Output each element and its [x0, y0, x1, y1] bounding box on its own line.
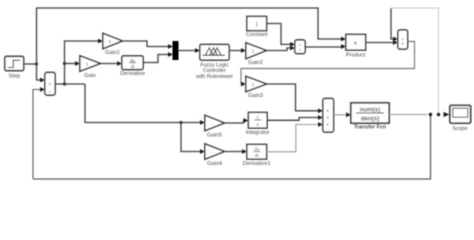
wire arrowhead into Derivative1: [242, 149, 247, 154]
wire junction down to Gain4: [181, 123, 201, 152]
gain Gain5: [205, 116, 224, 139]
wire arrowhead into SumA input 2: [290, 46, 295, 51]
wire Derivative to Mux input 2: [143, 55, 169, 63]
svg-text:1: 1: [86, 62, 89, 67]
wire Gain1 to Mux input 1: [122, 41, 169, 47]
svg-text:+: +: [401, 37, 404, 42]
svg-text:1: 1: [252, 49, 255, 54]
block Transfer Fcn: [351, 103, 389, 131]
svg-text:1: 1: [256, 115, 259, 120]
svg-text:1: 1: [255, 22, 258, 28]
wire step output to junction: [23, 63, 37, 65]
wire bottom feedback line: [33, 115, 431, 180]
op-amp style gain Gain: [80, 56, 100, 79]
wire Gain3 to Mux3 input 1: [266, 84, 319, 111]
wire sum1 output down to lower row: [85, 84, 201, 123]
wire step junction down into Sum1 plus input: [37, 64, 41, 80]
node loop junction dot: [437, 113, 440, 116]
svg-text:Derivative1: Derivative1: [243, 161, 271, 167]
wire Integrator to Mux3 input 2: [267, 118, 319, 121]
block Fuzzy Logic Controller with Ruleviewer U1: [196, 45, 233, 81]
wire branch to Gain: [65, 63, 76, 65]
block Scope: [450, 106, 471, 133]
wire Product to Sum2 input 2: [366, 42, 394, 44]
svg-text:+: +: [299, 48, 302, 53]
block Product: [346, 35, 366, 59]
svg-text:-.: -.: [211, 121, 214, 126]
gain Gain2: [246, 43, 266, 66]
wire arrowhead into Mux3 input 2: [318, 115, 323, 120]
wire arrowhead into Fuzzy Logic Controller: [195, 48, 200, 53]
svg-text:Gain4: Gain4: [207, 161, 222, 167]
svg-text:Step: Step: [9, 74, 21, 80]
wire arrowhead into Gain4: [200, 149, 205, 154]
wire branch up to Gain1: [65, 41, 99, 84]
wire Gain4 to Derivative1: [224, 151, 243, 153]
wire top feedforward from step junction up and across to Product elbow: [37, 8, 343, 64]
block Step: [5, 57, 24, 80]
wire Sum1 output with branch up: [55, 83, 85, 85]
svg-text:num(s): num(s): [360, 106, 381, 113]
svg-text:-.: -.: [211, 150, 214, 155]
wire faint loop from plant output to Sum2: [391, 8, 439, 115]
svg-text:with Ruleviewer: with Ruleviewer: [196, 74, 233, 80]
block Constant: [246, 17, 268, 38]
svg-text:1: 1: [252, 82, 255, 87]
svg-text:du: du: [130, 58, 135, 63]
block Sum2: [398, 30, 408, 49]
wire arrowhead into Gain5: [200, 120, 205, 125]
wire arrowhead into SumA input 1: [290, 42, 295, 47]
wire from scope line up and around into Sum2 input 1: [391, 8, 394, 39]
wire arrowhead into Gain3: [241, 82, 246, 87]
wire Gain5 to Integrator: [224, 121, 244, 124]
svg-text:Gain3: Gain3: [248, 93, 263, 99]
wire arrowhead into Sum1 plus input: [40, 78, 45, 83]
svg-text:Scope: Scope: [452, 126, 467, 132]
wire arrowhead into Mux3 input 3: [318, 122, 323, 127]
wire arrowhead into Sum2 input 1: [393, 37, 398, 42]
node feedback junction dot: [429, 113, 432, 116]
svg-text:Product: Product: [346, 53, 366, 59]
block Integrator: [246, 113, 270, 137]
wire Sum2 output left to Gain3: [241, 42, 415, 85]
block Derivative1: [243, 145, 271, 167]
wire Derivative1 to Mux3 input 3: [267, 125, 319, 152]
wire arrowhead into Sum1 minus input: [40, 87, 45, 92]
svg-text:Integrator: Integrator: [246, 130, 270, 136]
node gain-branch junction: [63, 62, 66, 65]
svg-text:Gain5: Gain5: [207, 132, 222, 138]
svg-text:×: ×: [353, 38, 357, 47]
wire Mux3 to Transfer Fcn: [334, 114, 347, 116]
wire arrowhead into Scope: [444, 112, 450, 117]
node sum1-output junction: [63, 82, 66, 85]
svg-text:+: +: [48, 82, 51, 88]
block Derivative: [120, 56, 145, 77]
wire feedback into Sum1 minus input: [33, 90, 41, 180]
svg-text:1: 1: [109, 39, 112, 45]
wire arrowhead into Product input 2: [341, 44, 346, 49]
svg-text:Gain2: Gain2: [248, 60, 263, 66]
block Sum1: [45, 73, 55, 96]
gain Gain1: [103, 34, 122, 56]
wire arrowhead into Transfer Fcn: [346, 112, 351, 117]
wire SumA to Product input 2: [305, 46, 342, 49]
wire arrowhead into Mux input 2: [168, 52, 173, 57]
svg-text:Constant: Constant: [246, 32, 268, 38]
node step-branch junction: [35, 62, 38, 65]
wire arrowhead into Gain2: [241, 48, 246, 53]
wire Mux to Fuzzy Logic Controller: [178, 50, 196, 52]
mux Mux1: [173, 42, 178, 60]
wire Constant to SumA input 1: [267, 24, 291, 45]
wire arrowhead into Integrator: [244, 118, 249, 123]
svg-text:−: −: [48, 89, 51, 95]
node lower-row junction: [179, 121, 182, 124]
wire arrowhead into Derivative: [117, 61, 122, 66]
wire arrowhead into Sum2 input 2: [393, 40, 398, 45]
svg-text:Gain: Gain: [84, 73, 96, 79]
wire arrowhead into Mux3 input 1: [318, 108, 323, 113]
block SumA: [295, 40, 305, 54]
wire arrowhead into Gain1: [98, 39, 103, 44]
svg-text:Derivative: Derivative: [120, 71, 145, 77]
wire Gain to Derivative: [100, 63, 118, 65]
svg-text:Gain1: Gain1: [105, 50, 120, 56]
wire Gain2 to SumA input 2: [266, 48, 291, 51]
svg-text:du: du: [254, 147, 259, 152]
wire arrowhead into Product input 1: [341, 37, 346, 42]
svg-text:den(s): den(s): [361, 115, 380, 122]
gain Gain3: [246, 77, 266, 100]
wire Fuzzy Logic Controller to Gain2: [229, 50, 242, 52]
wire arrowhead into Gain: [75, 61, 80, 66]
gain Gain4: [205, 144, 224, 167]
svg-text:Transfer Fcn: Transfer Fcn: [354, 125, 386, 131]
wire Transfer Fcn output toward Scope: [389, 114, 428, 116]
wire arrowhead into Mux input 1: [168, 44, 173, 49]
block Mux3 sum: [323, 99, 334, 133]
